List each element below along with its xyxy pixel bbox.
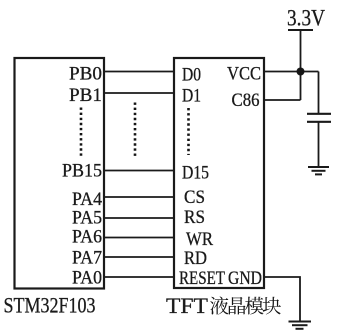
svg-text:STM32F103: STM32F103: [4, 293, 96, 318]
ellipsis dots on bus between blocks: [134, 103, 137, 158]
svg-text:PB0: PB0: [69, 64, 102, 85]
wire GND pin to ground: [264, 277, 300, 321]
svg-text:WR: WR: [186, 229, 213, 250]
svg-text:D15: D15: [182, 163, 209, 184]
svg-text:PA6: PA6: [72, 227, 102, 248]
svg-text:RD: RD: [184, 248, 207, 269]
wire PA0-RESET: [104, 276, 174, 278]
wire PA5-RS: [104, 217, 174, 219]
svg-text:VCC: VCC: [227, 64, 261, 85]
wire VCC to junction: [264, 71, 319, 73]
svg-text:PA5: PA5: [72, 208, 102, 229]
svg-text:TFT: TFT: [166, 293, 209, 318]
TFT LCD module block: [174, 58, 264, 288]
ellipsis dots inside MCU block: [80, 108, 83, 157]
svg-text:CS: CS: [184, 187, 205, 208]
wire capacitor to ground: [318, 122, 320, 167]
node junction 3.3V/VCC: [297, 68, 305, 76]
power bar 3.3V: [288, 29, 313, 31]
wire 3.3V drop through junction to C86: [300, 30, 302, 100]
svg-text:C86: C86: [232, 90, 260, 111]
ellipsis dots inside TFT block: [187, 108, 190, 155]
svg-text:D1: D1: [182, 86, 201, 107]
svg-text:PA0: PA0: [72, 268, 102, 289]
wire PB15-D15: [104, 170, 174, 172]
svg-text:PA7: PA7: [72, 248, 102, 269]
svg-text:GND: GND: [228, 268, 262, 289]
block label 液晶模块 (CJK glyph paths): [210, 296, 281, 314]
svg-text:D0: D0: [182, 65, 201, 86]
svg-text:3.3V: 3.3V: [287, 6, 325, 31]
svg-text:PB1: PB1: [69, 85, 102, 106]
svg-text:PB15: PB15: [62, 161, 102, 182]
wire C86 to vertical: [264, 99, 301, 101]
wire PB0-D0: [104, 71, 174, 73]
wire PA4-CS: [104, 196, 174, 198]
svg-text:RS: RS: [184, 207, 205, 228]
svg-text:RESET: RESET: [179, 268, 225, 289]
wire PA6-WR: [104, 237, 174, 239]
ground (bottom right): [289, 322, 312, 329]
MCU block U1 STM32F103: [15, 58, 105, 289]
wire PB1-D1: [104, 92, 174, 94]
wire PA7-RD: [104, 256, 174, 258]
wire down to capacitor: [318, 72, 320, 114]
ground (top right): [308, 167, 329, 174]
capacitor C1 plates: [307, 113, 331, 115]
